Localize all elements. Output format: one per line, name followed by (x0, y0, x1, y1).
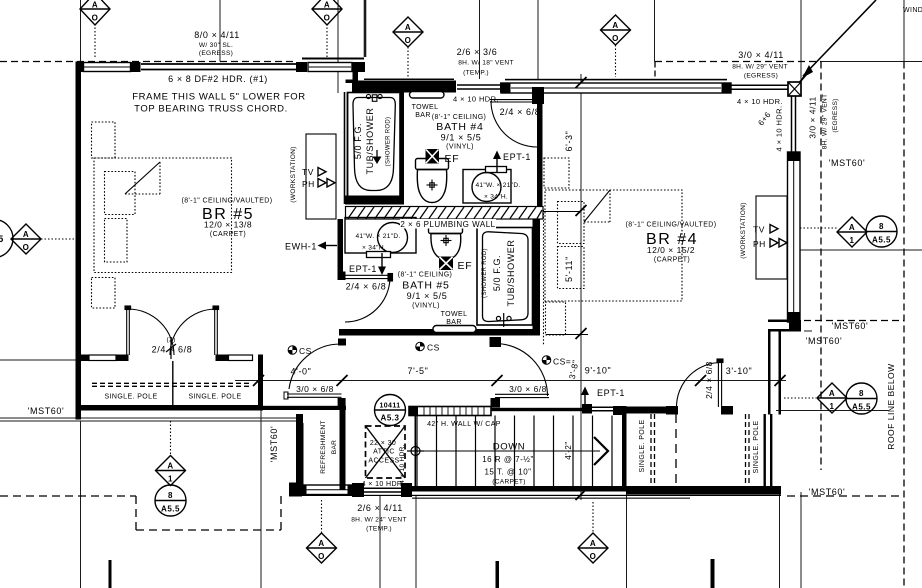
svg-text:8H. W/ 24" VENT: 8H. W/ 24" VENT (351, 517, 407, 524)
svg-text:4'-2": 4'-2" (564, 441, 573, 459)
svg-text:2/6 × 3/6: 2/6 × 3/6 (457, 47, 498, 57)
workstation BR5 box (306, 134, 336, 219)
svg-text:BATH #4: BATH #4 (436, 121, 483, 133)
wall bath5 south (339, 329, 540, 336)
bed BR5 outline (94, 158, 232, 273)
dotted leader diamond A1 bottomright (784, 397, 816, 399)
marker diamond A0 top2 (312, 0, 342, 25)
bed BR4 outline (545, 190, 682, 301)
svg-text:3/0 × 6/8: 3/0 × 6/8 (296, 384, 334, 394)
marker diamond A1 bottomright (817, 383, 847, 413)
heavy bar bottom x712 (711, 559, 715, 588)
svg-text:2/4 × 6/8: 2/4 × 6/8 (346, 282, 387, 292)
shelf and pole right closet dashed pair 1 (651, 414, 655, 486)
svg-text:PH: PH (753, 239, 766, 249)
nightstand BR4 (546, 302, 566, 335)
svg-text:(CARPET): (CARPET) (492, 479, 526, 486)
svg-text:6'-3": 6'-3" (564, 131, 574, 152)
svg-text:3'-10": 3'-10" (726, 366, 753, 376)
svg-text:(TEMP.): (TEMP.) (463, 70, 489, 77)
svg-text:7'-5": 7'-5" (408, 366, 429, 376)
marker circle A5.5 right (866, 216, 897, 247)
svg-text:8: 8 (168, 491, 173, 500)
shelf and pole right closet dashed pair 2 (746, 414, 750, 486)
label attic access (368, 440, 399, 465)
water heater bath5 tank circle (378, 223, 408, 253)
grid line vertical x380 bottom (379, 496, 381, 588)
marker diamond A0 bottom2 (578, 533, 608, 563)
svg-text:16 R @ 7-½": 16 R @ 7-½" (482, 455, 534, 464)
window W5 bottom (302, 485, 352, 495)
svg-text:DOWN: DOWN (493, 442, 525, 453)
wall hall south left segment (262, 406, 346, 410)
toilet bath5 bowl (431, 234, 461, 260)
water heater bath4 tank circle (472, 173, 501, 202)
roof line dashed y530 (136, 529, 281, 531)
post bottom wall 3 (401, 483, 412, 497)
svg-text:O: O (590, 552, 597, 561)
svg-text:PH: PH (302, 179, 315, 189)
bed BR4 pillow 1 (558, 202, 585, 244)
marker circle A5.3 (375, 395, 406, 426)
door bath5 leaf (345, 274, 393, 282)
door BR5 closet right arc (170, 309, 216, 355)
svg-text:SINGLE. POLE: SINGLE. POLE (104, 394, 157, 401)
svg-text:SINGLE. POLE: SINGLE. POLE (753, 420, 760, 473)
marker diamond A0 top4 (601, 15, 631, 45)
arrow EPT-1 hall up (581, 387, 589, 409)
wall jog vertical (353, 69, 359, 83)
dotted leader diamond A0 bottom1 (321, 500, 323, 533)
post hall right door (491, 398, 501, 408)
marker diamond A1 bottomleft (156, 456, 186, 486)
wall tub right solid (400, 93, 405, 205)
svg-text:A: A (590, 539, 596, 548)
label BATH5 (398, 272, 453, 310)
wall jamb right of W1 (131, 62, 141, 72)
svg-text:8H. W/ 29" VENT: 8H. W/ 29" VENT (732, 64, 788, 71)
marker circle 5 left edge (0, 220, 13, 258)
wall closet south (626, 486, 781, 495)
roof line dashed top left (0, 61, 297, 63)
window W2 top (308, 63, 352, 72)
post hall left door strike (338, 398, 346, 407)
dimension line vertical x581 (580, 74, 582, 500)
stair centerline (415, 450, 600, 452)
header right wall vertical (792, 96, 796, 152)
workstation BR4 box (756, 196, 787, 279)
roof line dashed bottom right y496 (787, 495, 904, 497)
roof line dashed vertical x821 (820, 62, 822, 471)
angled wall top right (799, 0, 876, 83)
label tub bath5 rotated (482, 239, 516, 306)
svg-text:A: A (318, 539, 324, 548)
grid line vertical x801 top (800, 0, 802, 82)
grid line horizontal y410 right (776, 410, 888, 412)
svg-text:(2): (2) (167, 337, 176, 344)
arrow EWH-1 (318, 242, 338, 250)
svg-text:(EGRESS): (EGRESS) (832, 98, 839, 132)
dimension line horizontal y380 (235, 380, 786, 382)
tick x581 y334 (576, 328, 587, 339)
closet right wall (258, 355, 263, 411)
svg-text:(VINYL): (VINYL) (446, 144, 474, 151)
dresser BR4 (544, 158, 569, 188)
fan EF bath4 (426, 150, 439, 164)
svg-text:4 × 10 HDR.: 4 × 10 HDR. (453, 95, 499, 104)
header 4x10 bottom (364, 488, 401, 492)
dotted leader to diamond A0-3 (407, 47, 409, 77)
svg-text:'MST60': 'MST60' (269, 426, 279, 463)
label down stairs (482, 442, 534, 486)
svg-text:(CARPET): (CARPET) (654, 257, 690, 264)
bottom wall second line (412, 498, 690, 499)
grid line vertical x779 bottom (779, 492, 781, 588)
svg-text:BAR: BAR (331, 440, 338, 454)
tub bath5 faucet (496, 313, 511, 327)
svg-text:A5.3: A5.3 (381, 414, 400, 423)
svg-text:5/0 F.G.: 5/0 F.G. (353, 123, 363, 159)
svg-text:O: O (23, 243, 30, 252)
label 3/0 window top right (732, 50, 788, 80)
ceiling break dotted along bath5 wall (543, 210, 545, 345)
svg-text:A5.5: A5.5 (872, 236, 891, 245)
roof line dashed top mid-right (655, 61, 821, 63)
roof line dashed step x281 (280, 496, 282, 530)
CS symbol 3 (542, 356, 551, 365)
stair centerline start symbol (407, 443, 424, 459)
toilet bath4 cross (427, 180, 438, 191)
post hall door left hinge (338, 339, 346, 346)
svg-text:5/0 F.G.: 5/0 F.G. (492, 255, 502, 291)
svg-text:A: A (829, 389, 835, 398)
tub bath4 control arrow (373, 150, 382, 164)
svg-text:1: 1 (830, 402, 835, 411)
wall bath5 left (338, 219, 344, 275)
tub bath4 faucets (366, 94, 382, 101)
svg-text:O: O (324, 14, 331, 23)
svg-text:O: O (405, 36, 412, 45)
label TV PH BR5 (302, 167, 315, 189)
svg-text:2 × 6 PLUMBING WALL: 2 × 6 PLUMBING WALL (400, 220, 495, 229)
heavy bar bottom x497 (496, 561, 500, 588)
svg-text:FRAME THIS WALL 5" LOWER FOR: FRAME THIS WALL 5" LOWER FOR (132, 92, 305, 103)
wall tub left thin double (345, 92, 348, 204)
toilet bath4 bowl (417, 170, 446, 203)
grid line vertical x801 bottom (800, 492, 802, 588)
door bath5 arc (345, 277, 390, 322)
toilet bath5 tank (429, 223, 463, 234)
stair direction arrow (594, 437, 608, 465)
wall closet top BR4 side (626, 407, 666, 414)
wall corner jog right (768, 320, 801, 332)
svg-text:9'-10": 9'-10" (585, 366, 612, 376)
svg-text:22 × 30: 22 × 30 (370, 440, 396, 447)
heavy bar bottom x110 (109, 560, 112, 588)
svg-text:(8'-1" CEILING/VAULTED): (8'-1" CEILING/VAULTED) (626, 222, 717, 229)
svg-text:4 × 10 HDR.: 4 × 10 HDR. (737, 97, 783, 106)
top line over bath4 band (364, 79, 454, 81)
svg-text:REFRESHMENT: REFRESHMENT (320, 420, 327, 474)
label TV PH BR4 (753, 225, 766, 250)
svg-text:5: 5 (0, 234, 4, 244)
closet front wall mid (116, 355, 129, 362)
svg-text:2/4 × 6/8: 2/4 × 6/8 (704, 361, 714, 399)
roof line dashed right y320 (804, 320, 904, 322)
svg-text:(VINYL): (VINYL) (412, 303, 440, 310)
svg-text:8/0 × 4/11: 8/0 × 4/11 (194, 30, 240, 40)
window closet front 1 (89, 355, 116, 361)
post bath4 door hinge (532, 87, 544, 104)
MST60 band line upper (0, 417, 298, 419)
closet back wall (81, 405, 263, 411)
bed BR5 pillow 1 (105, 172, 136, 215)
header 6x8 DF2 HDR (141, 64, 296, 70)
door BR5 closet right leaf (213, 306, 219, 355)
grid line vertical x538 (537, 0, 539, 79)
label BR5 (182, 198, 273, 239)
door BR4 closet arc (677, 363, 722, 408)
tub bath4 basin (353, 98, 395, 191)
door bath4 leaf (490, 100, 536, 102)
dotted leader diamond A0 bottom2 (592, 502, 594, 533)
marker diamond A0 bottom1 (307, 533, 337, 563)
svg-text:(SHOWER ROD): (SHOWER ROD) (386, 117, 392, 167)
wall right below jog double (768, 332, 781, 415)
svg-text:BAR: BAR (415, 112, 431, 119)
grid line vertical left bottom (80, 421, 82, 588)
svg-text:A: A (324, 1, 330, 10)
svg-text:(WORKSTATION): (WORKSTATION) (740, 202, 747, 258)
arrow EPT-1 bath5 down (378, 253, 386, 275)
label 2/6 window top (457, 47, 514, 77)
svg-text:TOWEL: TOWEL (412, 104, 439, 111)
svg-text:8H. W/ 18" VENT: 8H. W/ 18" VENT (458, 60, 514, 67)
svg-text:TUB/SHOWER: TUB/SHOWER (506, 239, 516, 306)
svg-text:10411: 10411 (379, 403, 400, 410)
svg-text:4 × 10 HDR.: 4 × 10 HDR. (399, 444, 406, 484)
grid line vertical x479 (479, 0, 481, 79)
arrow EPT-1 bath4 up (493, 151, 501, 173)
note frame this wall (132, 92, 305, 115)
svg-text:5'-11": 5'-11" (564, 256, 574, 282)
svg-text:9/1 × 5/5: 9/1 × 5/5 (441, 133, 482, 143)
dresser BR5 lower (92, 278, 116, 309)
window W3 long BR4 north (501, 83, 731, 93)
towel bar bath5 (433, 326, 476, 333)
svg-text:EPT-1: EPT-1 (503, 152, 531, 162)
tick y380 x497 (492, 375, 503, 386)
sill line over long window (505, 79, 727, 81)
tick x581 y494 (576, 489, 587, 500)
bottom wall lower line (289, 495, 781, 496)
dim line BR4 y334 (546, 334, 588, 336)
svg-text:9/1 × 5/5: 9/1 × 5/5 (407, 291, 448, 301)
grid line vertical x261 (260, 380, 262, 588)
tick y380 x700 (695, 375, 706, 386)
svg-text:SINGLE. POLE: SINGLE. POLE (188, 394, 241, 401)
wall bath4 north band (352, 81, 456, 93)
svg-text:4'-0": 4'-0" (291, 367, 312, 377)
svg-text:(EGRESS): (EGRESS) (199, 50, 233, 57)
header right of W3 (731, 85, 788, 89)
tub bath5 surround (477, 228, 533, 326)
svg-text:8H. W/ 29" VENT: 8H. W/ 29" VENT (822, 94, 829, 150)
svg-text:A: A (405, 23, 411, 32)
grid line vertical left top (80, 0, 82, 62)
label WH bath5 (355, 233, 400, 252)
svg-text:EWH-1: EWH-1 (285, 242, 317, 252)
svg-text:'MST60': 'MST60' (806, 336, 843, 346)
svg-text:2/4 × 6/8: 2/4 × 6/8 (500, 107, 541, 117)
window closet front 2 (229, 355, 253, 361)
closet BR5 front left bit (81, 355, 89, 362)
bed BR5 pillow 2 (105, 219, 128, 263)
bed BR4 fold (584, 190, 610, 222)
tick x581 y210 (576, 205, 587, 216)
label 2/6 window bottom (351, 503, 407, 533)
svg-text:A5.5: A5.5 (161, 505, 180, 514)
svg-text:A: A (612, 21, 618, 30)
dresser BR5 upper (92, 122, 116, 158)
tick x581 y82 (576, 77, 587, 88)
door bath4 arc (491, 101, 537, 147)
header end cap (296, 62, 307, 72)
svg-text:(8'-1" CEILING/VAULTED): (8'-1" CEILING/VAULTED) (182, 198, 273, 205)
label 8/0 window (194, 30, 240, 57)
door BR4 closet leaf (717, 359, 723, 407)
CS symbol 1 (288, 346, 297, 355)
wall left exterior (76, 62, 82, 420)
svg-text:'MST60': 'MST60' (832, 321, 869, 331)
svg-text:A: A (23, 230, 29, 239)
label towel bar bath4 (412, 104, 439, 119)
svg-text:A5.5: A5.5 (852, 403, 871, 412)
grid line vertical x654 (654, 0, 656, 62)
label 3/0 rotated right wall (808, 94, 840, 150)
tub bath5 basin (483, 232, 529, 322)
wall stairwell right (622, 406, 627, 487)
label BR4 (626, 222, 717, 264)
wall stair south (412, 486, 626, 492)
svg-text:SINGLE. POLE: SINGLE. POLE (639, 419, 646, 472)
svg-text:TOP BEARING TRUSS CHORD.: TOP BEARING TRUSS CHORD. (134, 104, 288, 115)
svg-text:TV: TV (302, 167, 314, 177)
svg-text:1: 1 (168, 475, 173, 484)
water heater bath4 box (463, 170, 511, 204)
dotted leader to diamond A0-1 (94, 24, 96, 58)
svg-text:W/ 30" SL.: W/ 30" SL. (199, 42, 233, 49)
post stair window left (582, 404, 592, 414)
svg-text:× 34"H.: × 34"H. (362, 245, 386, 252)
svg-text:CS: CS (427, 343, 440, 353)
svg-text:1: 1 (850, 236, 855, 245)
dotted leader diamond A1 bottomleft (170, 421, 172, 455)
svg-text:BATH #5: BATH #5 (402, 280, 449, 292)
marker circle A5.5 bottomleft (155, 485, 186, 516)
sill line above window W2 (302, 58, 364, 60)
water heater bath4 bump (486, 167, 507, 173)
marker diamond A1 right (837, 217, 867, 247)
svg-text:× 34"H.: × 34"H. (484, 194, 508, 201)
grid line vertical x220 (219, 0, 221, 62)
bed BR5 fold (125, 162, 160, 194)
roof line dashed vertical x904 (903, 62, 905, 588)
door hall right arc (495, 344, 548, 397)
post bottom wall 2 (352, 483, 364, 497)
CS symbol 2 (416, 342, 425, 351)
svg-text:(EGRESS): (EGRESS) (744, 73, 778, 80)
wall band under tub (345, 196, 404, 205)
post left of closet door (666, 406, 678, 415)
label towel bar bath5 (441, 311, 468, 326)
label WH bath4 (475, 182, 520, 201)
svg-text:TV: TV (753, 225, 765, 235)
svg-text:EF: EF (458, 260, 473, 272)
svg-text:(8'-1" CEILING): (8'-1" CEILING) (432, 114, 487, 121)
shelf and pole BR5 closet dashed (92, 383, 252, 386)
closet front wall right of doors (216, 355, 229, 362)
svg-text:3/0 × 6/8: 3/0 × 6/8 (509, 384, 547, 394)
plumbing wall hatched (346, 207, 544, 220)
svg-text:41"W. × 21"D.: 41"W. × 21"D. (355, 233, 400, 240)
label refreshment bar rotated (320, 420, 338, 474)
water heater bath5 bump (367, 252, 391, 258)
towel bar bath4 (410, 92, 445, 99)
roof line solid top right (820, 61, 922, 63)
water heater bath5 box (345, 218, 416, 254)
svg-text:A: A (167, 462, 173, 471)
refreshment bar counter (302, 423, 304, 488)
dotted leader diamond A1 right (800, 227, 837, 229)
svg-text:TOWEL: TOWEL (441, 311, 468, 318)
post bottom wall 1 (289, 483, 302, 497)
svg-text:2/6 × 4/11: 2/6 × 4/11 (357, 503, 403, 513)
post stair window right (613, 406, 626, 415)
post bath5 door hinge (338, 272, 346, 281)
svg-text:12/0 × 15/2: 12/0 × 15/2 (647, 245, 695, 255)
wall bath5 right (533, 219, 541, 335)
tick y380 x780 (775, 375, 786, 386)
svg-text:O: O (318, 552, 325, 561)
door BR5 closet left leaf (125, 306, 131, 355)
grid line vertical x416 bottom (415, 496, 417, 588)
nook wall left (296, 414, 303, 490)
marker diamond A0 top3 (393, 17, 423, 47)
bed BR4 pillow 2 (558, 247, 585, 289)
dim line BR4 y212 (543, 211, 581, 213)
svg-text:3/0 × 4/11: 3/0 × 4/11 (738, 50, 784, 60)
toilet bath4 tank (416, 159, 449, 170)
TV PH triangles BR4 (770, 225, 787, 248)
svg-text:O: O (92, 14, 99, 23)
svg-text:4 × 10 HDR.: 4 × 10 HDR. (775, 106, 784, 152)
svg-text:8: 8 (879, 222, 884, 231)
closet divider dashed (675, 414, 677, 486)
window W1 top-left (84, 63, 131, 72)
wall closet right double (764, 414, 773, 487)
wall segment right of W2 (352, 62, 365, 72)
dotted leader to diamond A0-4 (615, 45, 617, 77)
corner post with X (788, 82, 801, 96)
svg-text:8: 8 (859, 389, 864, 398)
wall hall south right segment (455, 408, 585, 411)
door BR5 closet left arc (128, 309, 174, 355)
grid line horizontal y250 right (800, 249, 922, 251)
svg-text:42" H. WALL W/ CAP: 42" H. WALL W/ CAP (427, 421, 501, 428)
wall bath4 right (537, 96, 543, 206)
label BATH4 (432, 114, 487, 151)
